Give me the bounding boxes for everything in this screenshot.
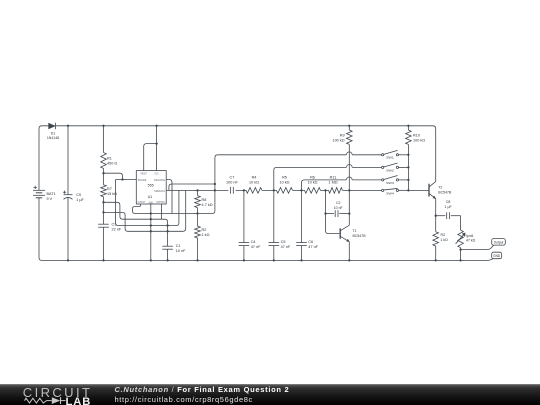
svg-text:9 V: 9 V xyxy=(47,197,53,201)
svg-text:C4: C4 xyxy=(251,240,256,244)
svg-text:C6: C6 xyxy=(308,240,313,244)
svg-text:C1: C1 xyxy=(176,244,181,248)
svg-text:BC547B: BC547B xyxy=(438,191,452,195)
svg-text:1 kΩ: 1 kΩ xyxy=(441,238,449,242)
svg-text:R8: R8 xyxy=(202,198,207,202)
svg-text:C7: C7 xyxy=(229,176,234,180)
svg-text:C9: C9 xyxy=(76,193,81,197)
svg-text:C8: C8 xyxy=(446,200,451,204)
svg-text:450 Ω: 450 Ω xyxy=(107,162,117,166)
svg-text:100 nF: 100 nF xyxy=(226,180,239,184)
svg-text:R7: R7 xyxy=(107,187,112,191)
svg-text:1N4148: 1N4148 xyxy=(47,136,59,140)
svg-text:100 kΩ: 100 kΩ xyxy=(332,138,344,142)
svg-text:R10: R10 xyxy=(413,133,420,137)
svg-text:C2: C2 xyxy=(336,201,341,205)
svg-text:4.7 kΩ: 4.7 kΩ xyxy=(202,203,213,207)
svg-text:OUTPUT: OUTPUT xyxy=(138,200,146,204)
svg-text:10 kΩ: 10 kΩ xyxy=(307,180,317,184)
svg-text:R6: R6 xyxy=(310,176,315,180)
svg-text:SW3: SW3 xyxy=(386,181,394,185)
svg-text:Rpot1: Rpot1 xyxy=(464,234,473,238)
svg-text:R5: R5 xyxy=(282,176,287,180)
svg-text:SW1: SW1 xyxy=(386,156,394,160)
svg-text:R2: R2 xyxy=(202,228,207,232)
svg-text:CONTROL: CONTROL xyxy=(156,200,165,204)
svg-text:R9: R9 xyxy=(340,133,345,137)
svg-text:GND: GND xyxy=(149,200,153,204)
svg-text:BAT1: BAT1 xyxy=(47,192,56,196)
svg-text:100 kΩ: 100 kΩ xyxy=(413,138,425,142)
svg-text:10 nF: 10 nF xyxy=(176,249,186,253)
svg-text:47 nF: 47 nF xyxy=(308,245,318,249)
svg-text:BC547B: BC547B xyxy=(353,234,367,238)
svg-text:47 kΩ: 47 kΩ xyxy=(466,239,476,243)
svg-text:10 kΩ: 10 kΩ xyxy=(279,180,289,184)
svg-text:T2: T2 xyxy=(438,186,442,190)
svg-text:GND: GND xyxy=(493,254,501,258)
svg-text:555: 555 xyxy=(148,183,154,187)
svg-text:1 kΩ: 1 kΩ xyxy=(202,233,210,237)
svg-text:RESET: RESET xyxy=(141,171,147,175)
svg-text:C5: C5 xyxy=(281,240,286,244)
svg-text:R1: R1 xyxy=(107,157,112,161)
svg-text:22 nF: 22 nF xyxy=(112,227,122,231)
svg-text:47 nF: 47 nF xyxy=(251,245,261,249)
svg-text:Output: Output xyxy=(494,240,504,244)
svg-text:TRIGGER: TRIGGER xyxy=(138,178,147,182)
svg-text:U1: U1 xyxy=(148,195,153,199)
svg-text:T1: T1 xyxy=(353,229,357,233)
svg-text:DISCHARGE: DISCHARGE xyxy=(154,178,165,182)
svg-text:1 µF: 1 µF xyxy=(76,198,84,202)
svg-text:1 MΩ: 1 MΩ xyxy=(328,180,337,184)
svg-text:10 nF: 10 nF xyxy=(334,206,343,210)
svg-text:R3: R3 xyxy=(441,233,446,237)
svg-text:SW2: SW2 xyxy=(386,168,394,172)
svg-text:D1: D1 xyxy=(51,132,56,136)
svg-text:VCC: VCC xyxy=(155,171,159,175)
svg-text:47 nF: 47 nF xyxy=(281,245,291,249)
svg-text:THRESHOLD: THRESHOLD xyxy=(154,189,165,193)
svg-text:10 kΩ: 10 kΩ xyxy=(249,180,259,184)
svg-text:R4: R4 xyxy=(252,176,257,180)
svg-text:SW4: SW4 xyxy=(386,191,394,195)
svg-text:1 µF: 1 µF xyxy=(445,205,452,209)
svg-text:R11: R11 xyxy=(330,176,337,180)
